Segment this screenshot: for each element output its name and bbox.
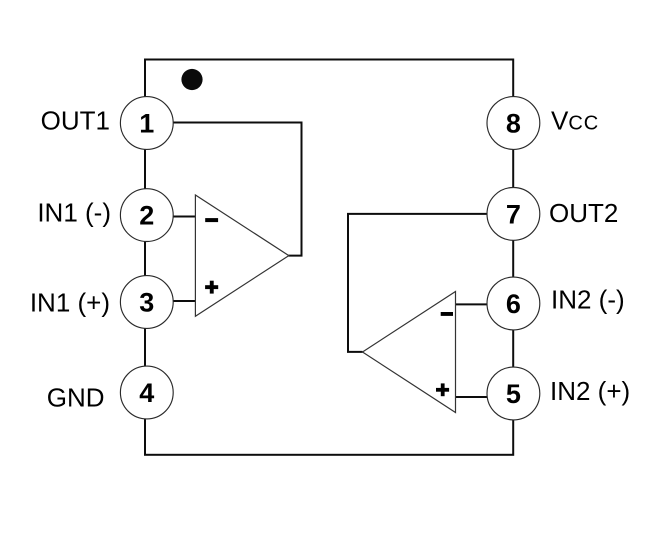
- svg-text:3: 3: [139, 287, 154, 317]
- label IN1 (-): [37, 198, 111, 228]
- svg-text:5: 5: [506, 379, 521, 409]
- pin 2 circle: [120, 189, 173, 242]
- U2 non-inverting input plus sign: [436, 383, 449, 396]
- svg-text:IN2 (-): IN2 (-): [551, 285, 625, 315]
- label OUT1: [41, 105, 110, 135]
- U1 inverting input minus sign: [205, 218, 218, 222]
- svg-text:IN1 (-): IN1 (-): [37, 198, 111, 228]
- label GND: [47, 382, 105, 412]
- svg-text:OUT1: OUT1: [41, 105, 110, 135]
- svg-text:OUT2: OUT2: [549, 198, 618, 228]
- label OUT2: [549, 198, 618, 228]
- wire: pin 5 to U2 non-inverting input: [455, 396, 489, 398]
- svg-text:IN2 (+): IN2 (+): [550, 376, 630, 406]
- op-amp U2 triangle: [363, 292, 456, 413]
- pin 4 circle: [120, 366, 173, 419]
- IC package body outline: [145, 60, 513, 455]
- pin 7 circle: [487, 188, 540, 241]
- op-amp U1 triangle: [195, 195, 288, 316]
- U2 inverting input minus sign: [441, 312, 453, 316]
- svg-text:1: 1: [139, 108, 154, 138]
- U1 non-inverting input plus sign: [205, 281, 218, 294]
- pin 6 circle: [487, 277, 540, 330]
- label VCC: [551, 106, 599, 136]
- svg-text:7: 7: [506, 199, 521, 229]
- pin 1 indicator dot: [181, 69, 202, 90]
- svg-text:GND: GND: [47, 382, 105, 412]
- label IN2 (-): [551, 285, 625, 315]
- wire: op-amp U2 output feedback from pin 7 to triangle tip: [348, 214, 489, 352]
- label IN1 (+): [30, 288, 110, 318]
- pin 3 circle: [120, 276, 173, 329]
- pin 5 circle: [487, 367, 540, 420]
- wire: pin 6 to U2 inverting input: [455, 303, 489, 305]
- label IN2 (+): [550, 376, 630, 406]
- svg-text:6: 6: [506, 289, 521, 319]
- wire: pin 2 to U1 inverting input: [172, 216, 196, 218]
- svg-text:8: 8: [506, 108, 521, 138]
- pin 8 circle: [487, 97, 540, 150]
- wire: op-amp U1 output feedback from pin 1 to triangle tip: [172, 123, 302, 256]
- pin 1 circle: [120, 97, 173, 150]
- svg-text:4: 4: [139, 378, 154, 408]
- wire: pin 3 to U1 non-inverting input: [172, 300, 196, 302]
- svg-text:IN1 (+): IN1 (+): [30, 288, 110, 318]
- svg-text:2: 2: [139, 200, 154, 230]
